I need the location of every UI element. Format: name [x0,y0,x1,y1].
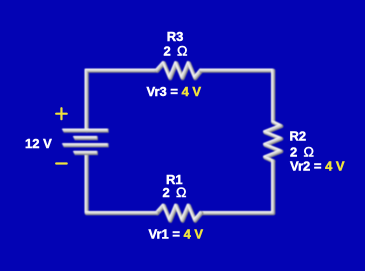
battery positive polarity marker (+) [56,108,66,119]
wire: R3 right lead to top-right corner down to R2 top lead [200,69,273,122]
resistor R2 (zigzag, right side, vertical) [264,121,282,162]
wire: R2 bottom lead to bottom-right corner across to R1 right lead [200,160,273,214]
resistor R1 (zigzag, bottom) [156,204,202,221]
svg-text:R2: R2 [290,129,307,144]
battery negative polarity marker (-) [56,162,66,164]
battery B1 12 V (four plates: long-short-long-short) [62,129,109,153]
wire: R1 left lead to bottom-left corner up to battery negative terminal [85,152,157,213]
resistor R3 (zigzag, top) [156,62,202,79]
wire: battery positive terminal up and across top to R3 left lead [85,69,157,131]
svg-text:2 Ω: 2 Ω [290,144,314,160]
svg-text:Vr1 = 4 V: Vr1 = 4 V [149,227,204,242]
svg-text:2 Ω: 2 Ω [164,43,188,59]
svg-text:Vr3 = 4 V: Vr3 = 4 V [147,84,202,99]
svg-text:12 V: 12 V [25,136,52,151]
svg-text:Vr2 = 4 V: Vr2 = 4 V [290,159,345,174]
